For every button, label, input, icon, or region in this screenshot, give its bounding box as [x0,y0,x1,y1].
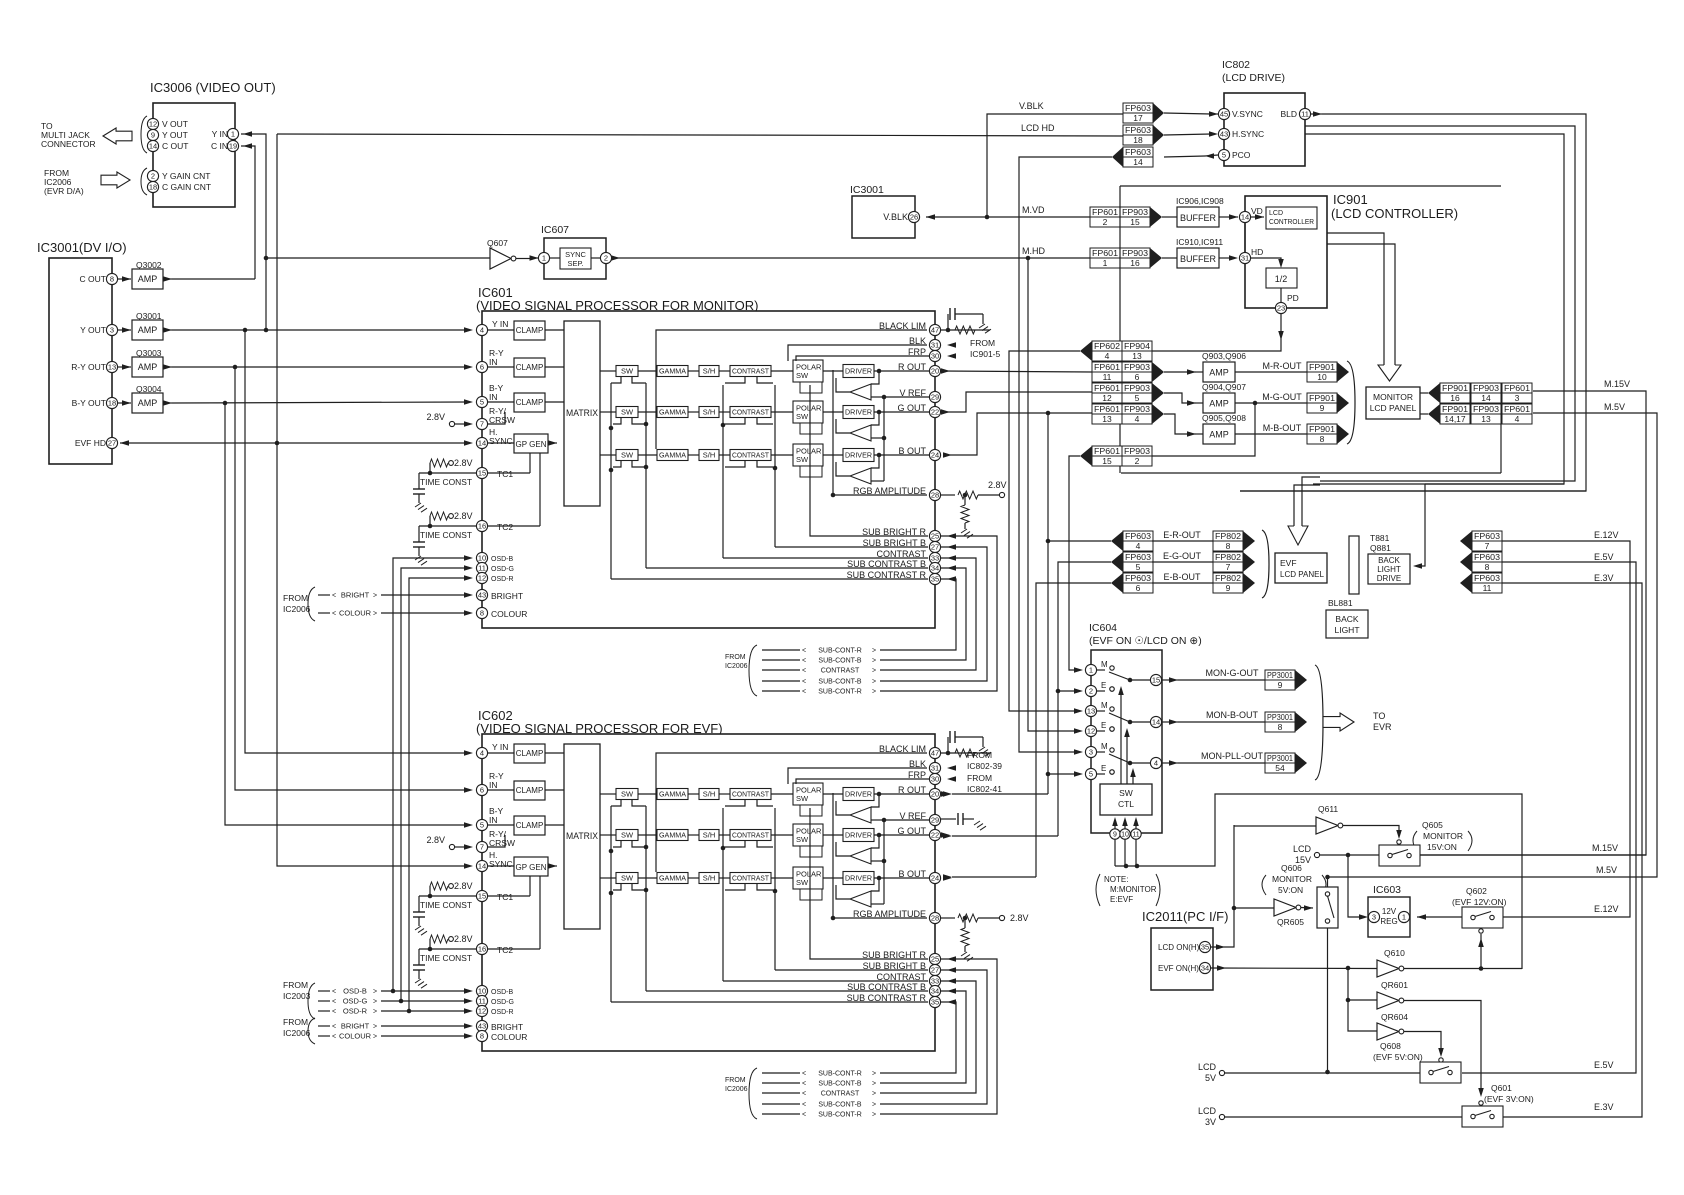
svg-text:2.8V: 2.8V [454,934,473,944]
svg-text:<: < [802,1102,806,1109]
svg-text:SUB-CONT-B: SUB-CONT-B [818,1102,862,1109]
svg-text:REG: REG [1380,917,1397,926]
svg-text:CONTRAST: CONTRAST [732,369,770,376]
svg-text:BRIGHT: BRIGHT [491,591,523,601]
svg-text:IC802-39: IC802-39 [967,761,1002,771]
svg-text:Q903,Q906: Q903,Q906 [1202,351,1246,361]
svg-text:15: 15 [1130,217,1140,227]
svg-text:COLOUR: COLOUR [339,609,372,618]
svg-text:SUB-CONT-B: SUB-CONT-B [818,1081,862,1088]
svg-text:>: > [373,1009,377,1016]
svg-text:11: 11 [1103,372,1112,382]
svg-text:3: 3 [1089,748,1093,757]
svg-text:Q602: Q602 [1466,886,1487,896]
svg-text:FROM: FROM [725,1077,746,1084]
svg-text:FP603: FP603 [1125,103,1151,113]
svg-text:FP903: FP903 [1473,383,1499,393]
svg-text:9: 9 [1113,832,1117,839]
svg-text:FROM: FROM [283,1017,308,1027]
svg-text:12: 12 [478,1007,486,1016]
svg-text:Y IN: Y IN [212,129,228,139]
svg-text:1: 1 [542,254,546,263]
svg-text:IN: IN [489,780,498,790]
svg-text:16: 16 [1450,393,1460,403]
svg-text:OSD-B: OSD-B [343,987,367,996]
svg-text:S/H: S/H [703,831,716,840]
svg-text:14: 14 [1152,718,1160,727]
svg-text:>: > [872,689,876,696]
svg-text:14: 14 [1481,393,1491,403]
svg-text:(EVF 12V:ON): (EVF 12V:ON) [1452,897,1507,907]
svg-text:2: 2 [151,172,155,181]
svg-text:47: 47 [931,749,939,758]
svg-text:>: > [872,1091,876,1098]
svg-text:E: E [1101,721,1106,730]
svg-text:Y IN: Y IN [492,742,508,752]
svg-text:S/H: S/H [703,790,716,799]
svg-text:3V: 3V [1205,1117,1216,1127]
svg-text:S/H: S/H [703,367,716,376]
svg-text:BRIGHT: BRIGHT [491,1022,523,1032]
svg-text:M-B-OUT: M-B-OUT [1263,423,1302,433]
svg-text:MATRIX: MATRIX [566,831,598,841]
svg-text:SW: SW [621,874,634,883]
svg-text:8: 8 [1320,434,1325,444]
svg-text:<: < [802,1071,806,1078]
svg-text:V.BLK: V.BLK [883,212,908,222]
svg-text:IC2003: IC2003 [283,991,311,1001]
svg-text:34: 34 [931,987,939,996]
svg-text:M-R-OUT: M-R-OUT [1263,361,1302,371]
svg-text:SUB-CONT-B: SUB-CONT-B [818,679,862,686]
svg-text:FP603: FP603 [1474,552,1500,562]
svg-text:BLD: BLD [1280,109,1297,119]
svg-text:34: 34 [1201,964,1209,973]
svg-text:43: 43 [478,591,486,600]
svg-text:E:EVF: E:EVF [1110,895,1133,904]
svg-text:<: < [802,1081,806,1088]
svg-text:4: 4 [1135,414,1140,424]
svg-text:CLAMP: CLAMP [516,821,544,830]
svg-text:CTL: CTL [1118,799,1134,809]
svg-text:QR604: QR604 [1381,1012,1408,1022]
svg-text:SW: SW [621,408,634,417]
svg-text:E.3V: E.3V [1594,1102,1614,1112]
svg-text:FROM: FROM [967,750,992,760]
svg-text:M: M [1101,660,1108,669]
svg-text:SW: SW [621,451,634,460]
svg-text:M.15V: M.15V [1592,843,1618,853]
svg-text:5: 5 [480,821,484,830]
svg-text:2.8V: 2.8V [426,835,445,845]
svg-text:BL881: BL881 [1328,598,1353,608]
svg-text:4: 4 [480,326,484,335]
svg-text:FROM: FROM [283,980,308,990]
svg-text:PD: PD [1287,293,1299,303]
svg-text:SW: SW [621,790,634,799]
svg-text:5: 5 [1089,770,1093,779]
svg-text:CLAMP: CLAMP [516,749,544,758]
svg-text:(EVF ON ☉/LCD ON ⊕): (EVF ON ☉/LCD ON ⊕) [1089,635,1202,647]
svg-text:1: 1 [1103,258,1108,268]
svg-text:20: 20 [931,790,939,799]
svg-text:27: 27 [931,966,939,975]
svg-text:LCD ON(H): LCD ON(H) [1158,943,1200,952]
svg-text:(EVF 5V:ON): (EVF 5V:ON) [1373,1052,1423,1062]
svg-text:TC1: TC1 [497,892,513,902]
svg-text:>: > [872,1081,876,1088]
svg-text:29: 29 [931,816,939,825]
svg-text:FP901: FP901 [1442,383,1468,393]
svg-text:11: 11 [478,564,486,573]
svg-text:5V:ON: 5V:ON [1278,885,1303,895]
svg-text:<: < [332,989,336,996]
svg-text:33: 33 [931,554,939,563]
svg-text:CONTRAST: CONTRAST [732,792,770,799]
svg-text:MONITOR: MONITOR [1423,831,1463,841]
svg-text:COLOUR: COLOUR [491,609,527,619]
svg-text:4: 4 [1154,759,1158,768]
svg-text:QR605: QR605 [1277,917,1304,927]
svg-text:2.8V: 2.8V [988,480,1007,490]
svg-text:PP3001: PP3001 [1267,670,1293,680]
svg-text:>: > [872,679,876,686]
svg-text:FROM: FROM [970,338,995,348]
svg-text:LCD HD: LCD HD [1021,123,1055,133]
svg-text:FP901: FP901 [1442,404,1468,414]
svg-text:14: 14 [1241,213,1249,222]
svg-text:<: < [802,658,806,665]
svg-text:SW: SW [796,455,809,464]
svg-text:<: < [332,1009,336,1016]
svg-text:DRIVER: DRIVER [845,367,873,376]
svg-text:1: 1 [1402,913,1406,922]
svg-text:28: 28 [931,491,939,500]
svg-text:13: 13 [1481,414,1491,424]
svg-text:PCO: PCO [1232,150,1251,160]
svg-text:DRIVER: DRIVER [845,451,873,460]
svg-text:TIME CONST: TIME CONST [420,478,472,487]
svg-text:(LCD DRIVE): (LCD DRIVE) [1222,72,1285,84]
svg-text:CONTRAST: CONTRAST [732,876,770,883]
svg-text:4: 4 [480,749,484,758]
svg-text:E: E [1101,681,1106,690]
svg-text:>: > [872,1071,876,1078]
svg-text:12: 12 [1102,393,1112,403]
svg-text:AMP: AMP [138,325,158,335]
svg-text:IC906,IC908: IC906,IC908 [1176,196,1224,206]
svg-text:PP3001: PP3001 [1267,753,1293,763]
svg-text:H.SYNC: H.SYNC [1232,129,1264,139]
svg-text:FP603: FP603 [1125,552,1151,562]
svg-text:15: 15 [478,892,486,901]
svg-text:>: > [373,989,377,996]
svg-text:M:MONITOR: M:MONITOR [1110,885,1157,894]
svg-text:11: 11 [1483,583,1492,593]
svg-text:18: 18 [1133,135,1143,145]
svg-text:7: 7 [480,420,484,429]
svg-text:MON-PLL-OUT: MON-PLL-OUT [1201,751,1264,761]
svg-text:TIME CONST: TIME CONST [420,954,472,963]
svg-text:10: 10 [478,554,486,563]
svg-text:EVF HD: EVF HD [75,438,106,448]
svg-text:29: 29 [931,393,939,402]
svg-text:12: 12 [149,120,157,129]
svg-text:BUFFER: BUFFER [1180,213,1217,223]
svg-text:5: 5 [1222,151,1226,160]
svg-text:IC2006: IC2006 [725,1086,748,1093]
svg-text:9: 9 [1278,680,1283,690]
svg-text:Q881: Q881 [1370,543,1391,553]
svg-text:C OUT: C OUT [80,274,106,284]
svg-text:12: 12 [478,574,486,583]
svg-text:LCD: LCD [1293,844,1312,854]
svg-text:IN: IN [489,815,498,825]
svg-text:<: < [802,1112,806,1119]
svg-text:5: 5 [480,398,484,407]
svg-text:7: 7 [1226,562,1231,572]
svg-text:3: 3 [1372,913,1376,922]
svg-text:TO: TO [1373,711,1385,721]
svg-text:FP603: FP603 [1125,125,1151,135]
svg-text:IC2011(PC I/F): IC2011(PC I/F) [1142,909,1228,924]
svg-text:13: 13 [1132,351,1142,361]
svg-text:E-G-OUT: E-G-OUT [1163,551,1201,561]
svg-text:E: E [1101,764,1106,773]
svg-text:FP901: FP901 [1309,393,1335,403]
svg-text:15: 15 [478,469,486,478]
svg-text:V.BLK: V.BLK [1019,101,1044,111]
svg-text:IC603: IC603 [1373,884,1401,896]
svg-text:TIME CONST: TIME CONST [420,531,472,540]
svg-text:Q905,Q908: Q905,Q908 [1202,413,1246,423]
svg-text:2: 2 [1135,456,1140,466]
svg-text:SW: SW [796,371,809,380]
svg-text:Q904,Q907: Q904,Q907 [1202,382,1246,392]
svg-text:8: 8 [1278,722,1283,732]
svg-text:FP601: FP601 [1094,446,1120,456]
svg-text:13: 13 [1102,414,1112,424]
svg-text:C GAIN CNT: C GAIN CNT [162,182,211,192]
svg-text:2: 2 [604,254,608,263]
svg-text:35: 35 [931,575,939,584]
svg-text:FP603: FP603 [1474,531,1500,541]
svg-text:Y GAIN CNT: Y GAIN CNT [162,171,211,181]
svg-text:C IN: C IN [211,141,228,151]
svg-text:OSD-R: OSD-R [491,576,514,583]
svg-text:>: > [373,999,377,1006]
svg-text:14: 14 [1133,157,1143,167]
svg-text:SUB-CONT-R: SUB-CONT-R [818,1071,862,1078]
svg-text:<: < [332,1024,336,1031]
svg-text:SEP.: SEP. [567,259,583,268]
svg-text:GP GEN: GP GEN [516,863,547,872]
svg-text:27: 27 [108,439,116,448]
svg-text:EVF: EVF [1280,558,1297,568]
svg-text:OSD-G: OSD-G [491,999,514,1006]
svg-text:SW: SW [621,367,634,376]
svg-text:FP601: FP601 [1092,207,1118,217]
svg-text:Q601: Q601 [1491,1083,1512,1093]
svg-text:FROM: FROM [725,654,746,661]
svg-text:11: 11 [1301,110,1309,119]
svg-text:E.12V: E.12V [1594,530,1619,540]
svg-text:6: 6 [480,786,484,795]
svg-text:27: 27 [931,543,939,552]
svg-text:S/H: S/H [703,451,716,460]
svg-text:<: < [802,679,806,686]
svg-text:Q610: Q610 [1384,948,1405,958]
svg-text:CLAMP: CLAMP [516,363,544,372]
svg-text:OSD-R: OSD-R [491,1009,514,1016]
svg-text:FP601: FP601 [1094,383,1120,393]
svg-text:FP903: FP903 [1473,404,1499,414]
svg-text:AMP: AMP [138,274,158,284]
svg-text:OSD-B: OSD-B [491,556,514,563]
svg-text:R-Y OUT: R-Y OUT [71,362,106,372]
svg-text:IC2006: IC2006 [283,604,311,614]
svg-text:(EVR D/A): (EVR D/A) [44,186,84,196]
svg-text:FROM: FROM [283,593,308,603]
svg-text:NOTE:: NOTE: [1104,875,1128,884]
svg-text:11: 11 [478,997,486,1006]
svg-text:V OUT: V OUT [162,119,188,129]
svg-text:14: 14 [149,142,157,151]
svg-text:GP GEN: GP GEN [516,440,547,449]
svg-text:<: < [332,1034,336,1041]
svg-text:M.HD: M.HD [1022,246,1045,256]
svg-text:SYNC: SYNC [489,436,513,446]
svg-text:M.5V: M.5V [1604,402,1625,412]
svg-text:8: 8 [110,275,114,284]
svg-text:IC2006: IC2006 [725,663,748,670]
svg-text:LCD: LCD [1269,210,1283,217]
svg-text:VD: VD [1251,206,1263,216]
svg-text:MATRIX: MATRIX [566,408,598,418]
svg-text:10: 10 [1121,832,1129,839]
svg-text:BRIGHT: BRIGHT [341,1022,370,1031]
svg-text:54: 54 [1275,763,1285,773]
svg-text:6: 6 [480,363,484,372]
svg-text:IC901-5: IC901-5 [970,349,1001,359]
svg-text:IC901: IC901 [1333,192,1368,207]
svg-text:SUB-CONT-R: SUB-CONT-R [818,1112,862,1119]
svg-text:GAMMA: GAMMA [659,833,686,840]
svg-text:(LCD CONTROLLER): (LCD CONTROLLER) [1331,206,1458,221]
svg-text:TIME CONST: TIME CONST [420,901,472,910]
svg-text:COLOUR: COLOUR [491,1032,527,1042]
svg-text:10: 10 [478,987,486,996]
svg-text:LIGHT: LIGHT [1334,625,1359,635]
svg-text:8: 8 [1485,562,1490,572]
svg-text:47: 47 [931,326,939,335]
svg-text:12: 12 [1087,727,1095,736]
svg-text:24: 24 [931,451,939,460]
svg-text:SYNC: SYNC [489,859,513,869]
svg-text:CONTRAST: CONTRAST [821,1091,860,1098]
svg-text:IN: IN [489,357,498,367]
svg-text:GAMMA: GAMMA [659,410,686,417]
svg-text:FP603: FP603 [1125,531,1151,541]
svg-text:45: 45 [1220,110,1228,119]
svg-text:19: 19 [229,142,237,151]
svg-text:15V:ON: 15V:ON [1427,842,1457,852]
svg-text:22: 22 [931,408,939,417]
svg-text:12V: 12V [1382,907,1397,916]
svg-text:<: < [332,593,336,600]
svg-text:4: 4 [1105,351,1110,361]
svg-text:22: 22 [931,831,939,840]
svg-text:FP903: FP903 [1124,404,1150,414]
svg-text:2: 2 [1103,217,1108,227]
svg-text:FP903: FP903 [1122,248,1148,258]
svg-text:MONITOR: MONITOR [1272,874,1312,884]
svg-text:<: < [802,668,806,675]
svg-text:<: < [332,611,336,618]
svg-text:CONTRAST: CONTRAST [732,410,770,417]
svg-text:E.12V: E.12V [1594,904,1619,914]
svg-text:SW: SW [796,835,809,844]
svg-text:GAMMA: GAMMA [659,792,686,799]
svg-text:>: > [373,593,377,600]
svg-text:C OUT: C OUT [162,141,188,151]
svg-text:SW: SW [796,794,809,803]
svg-text:SW: SW [1119,788,1133,798]
svg-text:FP601: FP601 [1094,404,1120,414]
svg-text:8: 8 [480,1032,484,1041]
svg-text:>: > [872,1102,876,1109]
svg-text:GAMMA: GAMMA [659,876,686,883]
svg-text:9: 9 [151,131,155,140]
svg-text:18: 18 [149,183,157,192]
svg-text:DRIVER: DRIVER [845,790,873,799]
svg-text:SW: SW [796,878,809,887]
svg-text:FP901: FP901 [1309,424,1335,434]
svg-text:SUB-CONT-R: SUB-CONT-R [818,689,862,696]
svg-text:IC910,IC911: IC910,IC911 [1176,237,1223,247]
svg-text:M: M [1101,742,1108,751]
svg-text:13: 13 [1087,707,1095,716]
svg-text:BACK: BACK [1335,614,1358,624]
svg-text:14,17: 14,17 [1444,414,1466,424]
svg-text:IC3006 (VIDEO OUT): IC3006 (VIDEO OUT) [150,80,276,95]
svg-text:17: 17 [1133,113,1143,123]
svg-text:CLAMP: CLAMP [516,786,544,795]
svg-text:FP603: FP603 [1125,573,1151,583]
svg-text:IC802-41: IC802-41 [967,784,1002,794]
svg-text:GAMMA: GAMMA [659,369,686,376]
svg-text:34: 34 [931,564,939,573]
svg-text:30: 30 [931,352,939,361]
svg-text:CONTROLLER: CONTROLLER [1269,219,1314,226]
svg-text:43: 43 [478,1022,486,1031]
svg-text:E.3V: E.3V [1594,573,1614,583]
svg-text:Q608: Q608 [1380,1041,1401,1051]
svg-text:S/H: S/H [703,874,716,883]
svg-text:FP802: FP802 [1215,573,1241,583]
svg-text:S/H: S/H [703,408,716,417]
svg-text:5V: 5V [1205,1073,1216,1083]
svg-text:18: 18 [108,399,116,408]
svg-text:OSD-G: OSD-G [343,997,368,1006]
svg-text:M-G-OUT: M-G-OUT [1262,392,1302,402]
svg-text:>: > [373,1024,377,1031]
svg-text:31: 31 [931,341,939,350]
svg-text:1: 1 [231,130,235,139]
svg-text:OSD-B: OSD-B [491,989,514,996]
svg-text:Q607: Q607 [487,238,508,248]
svg-text:15: 15 [1102,456,1112,466]
